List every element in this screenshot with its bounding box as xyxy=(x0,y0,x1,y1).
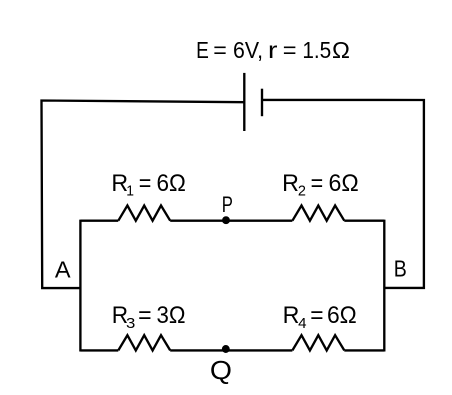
wire: battery right plate to top-right corner, down right side, to node B junction xyxy=(262,100,424,288)
label R4 = 6 ohm xyxy=(283,302,357,332)
svg-text:=: = xyxy=(138,302,151,329)
svg-text:R: R xyxy=(283,302,300,329)
svg-text:R: R xyxy=(282,170,299,197)
resistor R3 xyxy=(118,335,170,350)
battery cell E: short plate xyxy=(261,89,263,117)
svg-text:2: 2 xyxy=(298,182,306,199)
wire: bottom branch right segment xyxy=(344,349,384,351)
svg-text:A: A xyxy=(55,256,71,282)
svg-text:Ω: Ω xyxy=(332,37,350,63)
node Q junction dot xyxy=(222,345,230,353)
wire: bottom branch left segment xyxy=(80,349,118,351)
svg-text:6V,: 6V, xyxy=(233,37,263,63)
svg-text:=: = xyxy=(283,37,297,63)
svg-text:=: = xyxy=(139,170,152,197)
svg-text:1.5: 1.5 xyxy=(302,37,331,63)
svg-text:4: 4 xyxy=(298,315,306,332)
resistor R4 xyxy=(292,335,344,350)
wire: top branch middle segment through node P xyxy=(170,220,292,222)
svg-text:6Ω: 6Ω xyxy=(328,170,358,197)
label R1 = 6 ohm xyxy=(111,170,185,200)
wire: battery left plate to top-left corner, down left side, to node A junction xyxy=(42,101,245,289)
svg-text:=: = xyxy=(213,37,227,63)
node P junction dot xyxy=(222,216,230,224)
svg-text:E: E xyxy=(196,37,209,63)
resistor R2 xyxy=(292,206,344,221)
wire: top branch right segment xyxy=(344,220,384,222)
resistor R1 xyxy=(118,206,170,221)
svg-text:Q: Q xyxy=(210,355,232,385)
wire: top branch left segment xyxy=(80,220,118,222)
wire: inner loop right vertical (node B rail) xyxy=(383,220,385,352)
svg-text:3: 3 xyxy=(126,315,135,332)
svg-text:=: = xyxy=(310,302,323,329)
label: E = 6V, r = 1.5 ohm xyxy=(196,37,350,63)
svg-text:6Ω: 6Ω xyxy=(157,170,186,197)
svg-text:=: = xyxy=(311,170,324,197)
svg-text:3Ω: 3Ω xyxy=(157,302,186,329)
svg-text:r: r xyxy=(268,37,278,63)
wire: inner loop left vertical (node A rail) xyxy=(79,220,81,352)
battery cell E: long plate xyxy=(243,73,245,131)
label R2 = 6 ohm xyxy=(282,170,359,200)
svg-text:6Ω: 6Ω xyxy=(327,302,357,329)
svg-text:B: B xyxy=(394,256,407,282)
svg-text:1: 1 xyxy=(126,182,134,199)
wire: bottom branch middle segment through node Q xyxy=(170,349,292,351)
svg-text:P: P xyxy=(222,192,233,217)
label R3 = 3 ohm xyxy=(112,302,186,332)
